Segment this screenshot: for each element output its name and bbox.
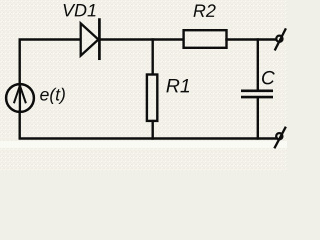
wire source bottom to bottom rail <box>20 111 277 138</box>
wire diode to R2 with node for R1 <box>100 38 183 40</box>
source circle e(t) <box>6 84 34 112</box>
resistor R2 box <box>184 30 227 48</box>
label C <box>262 71 275 85</box>
resistor R1 top stem <box>151 40 153 75</box>
terminal top-right circle <box>276 36 282 42</box>
terminal bottom-right circle <box>276 133 282 139</box>
capacitor C top stem <box>257 40 259 90</box>
source arrowhead right leg <box>20 86 26 103</box>
capacitor C bottom stem <box>257 98 259 138</box>
diode VD1 triangle <box>81 23 99 55</box>
capacitor C bottom plate <box>242 96 271 99</box>
label e(t) <box>40 88 65 104</box>
capacitor C top plate <box>242 90 271 93</box>
terminal top-right slash <box>275 29 285 49</box>
light band under bottom wire <box>0 141 287 148</box>
source arrow shaft <box>19 86 21 110</box>
resistor R1 bottom stem <box>151 121 153 138</box>
wire R2 to top-right terminal <box>227 38 276 40</box>
label R2 <box>194 4 216 17</box>
source arrowhead left leg <box>14 86 20 103</box>
resistor R1 box <box>147 75 157 121</box>
wire top-left (source to diode anode) <box>20 40 80 85</box>
terminal bottom-right slash <box>275 128 285 148</box>
label R1 <box>166 79 189 92</box>
label VD1 <box>64 4 96 16</box>
diode VD1 cathode bar <box>98 20 101 59</box>
